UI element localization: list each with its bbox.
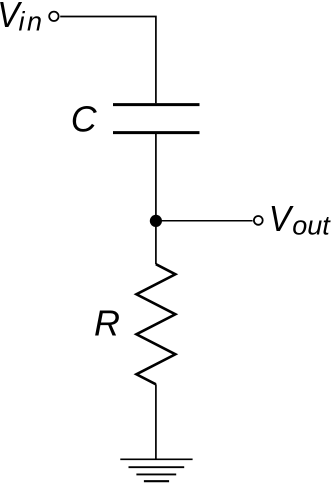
svg-text:V: V <box>269 198 294 239</box>
svg-text:R: R <box>94 303 120 344</box>
svg-text:out: out <box>292 211 331 241</box>
svg-text:in: in <box>19 6 45 36</box>
svg-text:C: C <box>71 100 98 140</box>
